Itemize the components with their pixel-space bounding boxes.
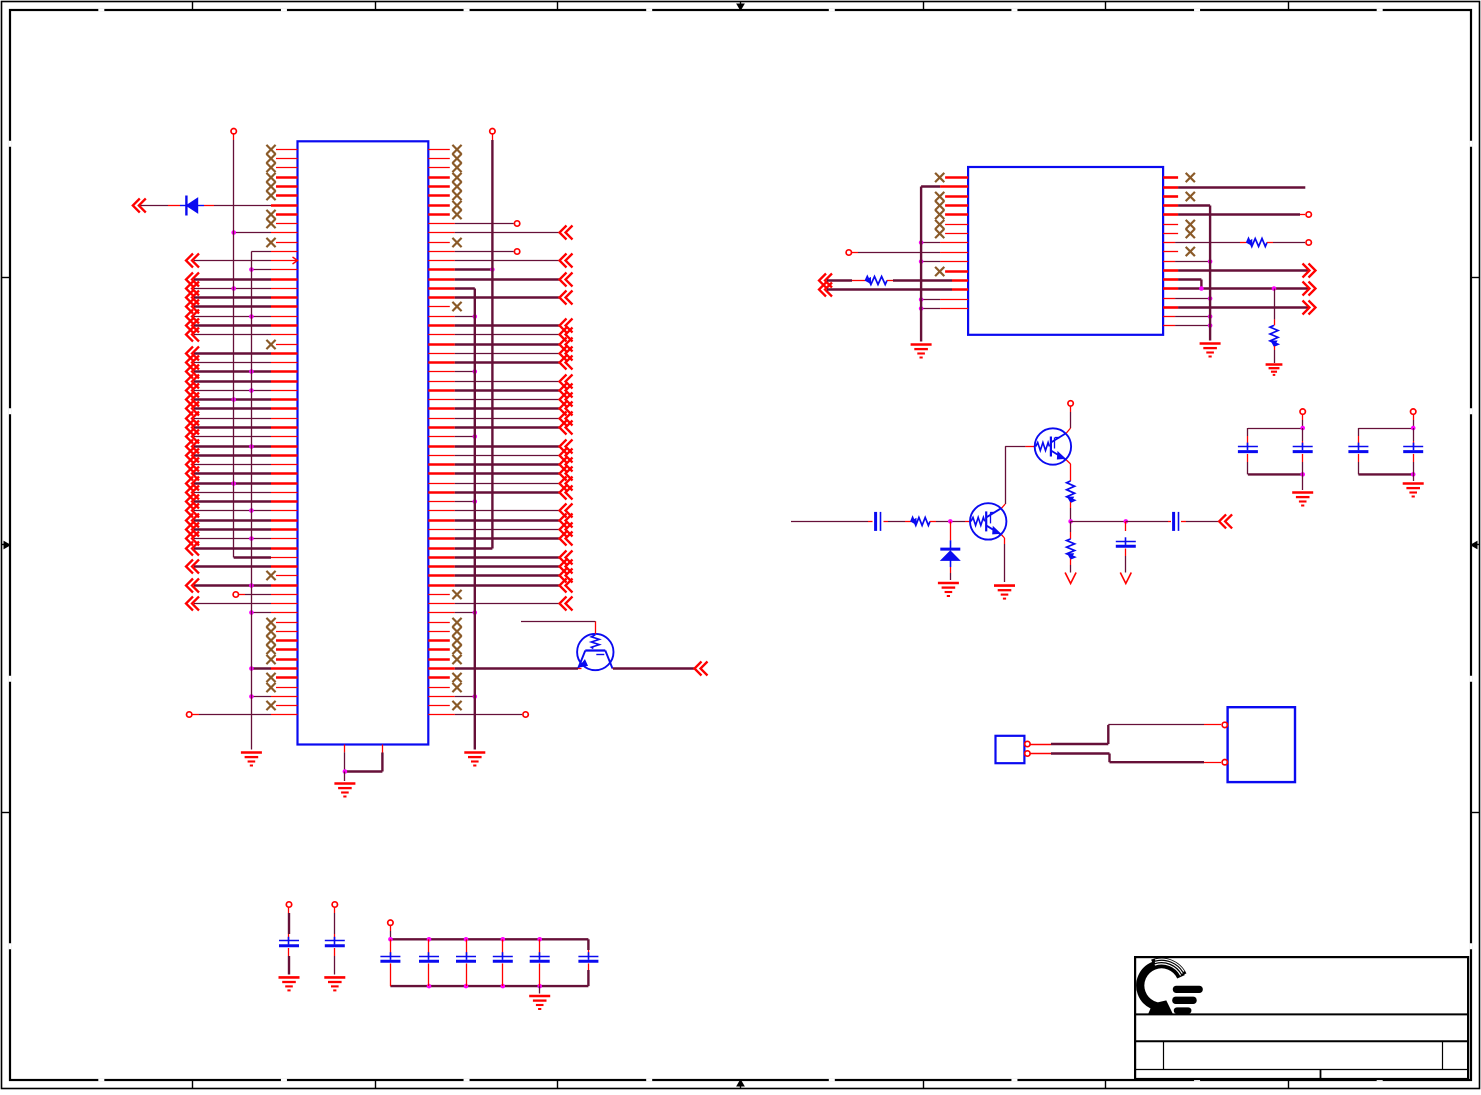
no-connect X left pin 3 <box>266 163 297 172</box>
wire right pin 36 <box>428 467 572 481</box>
no-connect X left pin 4 <box>266 173 297 182</box>
U1 ground pins <box>343 745 383 782</box>
wire left pin 48 <box>186 579 298 593</box>
wire right pin 12 <box>428 249 520 254</box>
wire right pin 23 <box>428 347 572 361</box>
no-connect X right pin 56 <box>428 655 461 664</box>
wire right pin 25 <box>428 369 477 374</box>
wire U2 right jog <box>1163 280 1201 289</box>
no-connect X left pin 9 <box>266 219 297 228</box>
no-connect X U2 left pin 4 <box>935 201 968 210</box>
no-connect X right pin 55 <box>428 645 461 654</box>
ground under bus C <box>1200 344 1221 357</box>
wire Q3 base <box>521 621 596 634</box>
wire left pin 51 <box>249 610 297 615</box>
wire left pin 26 <box>186 375 298 389</box>
no-connect X U2 right pin <box>1163 229 1195 238</box>
wire left pin 28 <box>186 393 298 407</box>
no-connect X right pin 5 <box>428 182 461 191</box>
wire right pin 32 <box>428 434 477 439</box>
wire right pin 57 to Q3 <box>428 667 578 670</box>
wire right pin 20 <box>428 319 572 333</box>
wire right pin 21 <box>428 328 572 342</box>
wire U2 pin 2 to bus <box>921 185 968 188</box>
capacitor C bank 1 <box>380 939 400 986</box>
off-page wire U2 right <box>1163 264 1315 278</box>
no-connect X U2 right pin <box>1163 220 1195 229</box>
no-connect X U2 left pin 7 <box>935 229 968 238</box>
wire left pin 34 <box>186 449 298 463</box>
wire left pin 46 <box>186 560 298 574</box>
port to capacitor bank <box>388 920 393 939</box>
wire right pin 42 <box>428 523 572 537</box>
no-connect X right pin 54 <box>428 636 461 645</box>
no-connect X left pin 1 <box>266 145 297 154</box>
wire right pin 16 <box>428 287 475 290</box>
wire left pin 45 <box>234 557 298 559</box>
IC U2 <box>968 167 1163 335</box>
resistor R pulldown at U2 <box>1270 289 1278 364</box>
wire left pin 32 <box>186 430 298 444</box>
no-connect X left pin 55 <box>266 645 297 654</box>
wire left pin 40 <box>186 504 298 518</box>
ground under bus A <box>464 753 485 766</box>
no-connect X left pin 53 <box>266 627 297 636</box>
wire pair1 ground <box>1302 474 1304 490</box>
wire right pin 37 <box>428 477 572 491</box>
wire U2 left pin 10 to bus <box>919 259 968 264</box>
resistor R and off-page wire to U2 pin 12 <box>819 274 968 288</box>
no-connect X left pin 5 <box>266 182 297 191</box>
wire right pin 26 <box>428 375 572 389</box>
capacitor C bank 6 <box>578 939 598 986</box>
wire right pin 22 <box>428 338 572 352</box>
wire left pin 60 <box>249 694 297 699</box>
wire right pin 45 <box>428 551 572 565</box>
wire left pin 42 <box>186 523 298 537</box>
wire right pin 19 <box>428 314 477 319</box>
wire left pin 20 <box>186 319 298 333</box>
capacitor bank top bus <box>388 937 588 942</box>
no-connect X left pin 47 <box>266 571 297 580</box>
capacitor C shunt <box>1116 521 1136 572</box>
wire Q1 emitter to ground <box>1002 535 1005 582</box>
wire right pin 15 <box>428 273 572 287</box>
wire right pin 27 <box>428 384 572 398</box>
wire left pin 21 <box>186 328 298 342</box>
wire left pin 29 <box>186 402 298 416</box>
no-connect X U2 left pin 1 <box>935 173 968 182</box>
node VDD vertical net V1 <box>231 129 236 558</box>
no-connect X right pin 52 <box>428 618 461 627</box>
resistor R to port at U2 right <box>1163 239 1311 247</box>
no-connect X right pin 2 <box>428 154 461 163</box>
wire Q1 collector <box>1002 446 1035 508</box>
wire U2 left pin 14 to bus <box>919 297 968 302</box>
wire right pin 14 <box>428 267 494 272</box>
wire left pin 38 <box>186 486 298 500</box>
wire right pin 29 <box>428 402 572 416</box>
no-connect port right of U1 bottom <box>428 712 528 717</box>
wire U2 left pin 15 to bus <box>919 306 968 311</box>
wire left pin 18 <box>186 300 298 314</box>
wire right pin 48 <box>428 579 572 593</box>
node bus B <box>490 129 495 549</box>
wire right pin 35 <box>428 458 572 472</box>
wire resistor to Q1 base <box>930 519 970 524</box>
connector J2 <box>1228 707 1295 782</box>
capacitor C output series <box>1174 512 1179 531</box>
ground under D2 <box>938 583 959 596</box>
wire J1 pin2 to J2 <box>1025 751 1228 765</box>
wire U2 right pin to bus C <box>1163 323 1212 328</box>
no-connect port wire to U1 left pin 49 <box>233 592 297 597</box>
power arrow VEE 1 <box>1065 573 1076 584</box>
wire U2 pin to bus C <box>1163 204 1210 207</box>
diode D2 <box>940 521 960 580</box>
no-connect X left pin 2 <box>266 154 297 163</box>
no-connect X right pin 18 <box>428 302 461 311</box>
wire right pin 60 <box>428 694 477 699</box>
wire right pin 17 <box>428 291 572 305</box>
decoupling capacitor pair 2 <box>1348 409 1423 477</box>
wire right pin 13 <box>428 254 572 268</box>
no-connect X U2 left pin 3 <box>935 192 968 201</box>
vertical net V2 with ground <box>251 252 253 750</box>
wire left pin 19 <box>186 310 298 324</box>
wire right pin 50 <box>428 597 572 611</box>
ground bulk cap 2 <box>324 977 345 990</box>
transistor Q3 <box>577 634 613 670</box>
title block <box>1135 957 1468 1079</box>
no-connect X right pin 59 <box>428 683 461 692</box>
wire left pin 12 <box>251 251 297 253</box>
wire Q2 collector to port <box>1066 401 1073 433</box>
wire right pin 44 <box>428 547 492 550</box>
off-page wire to U2 pin 13 <box>819 283 968 297</box>
wire left pin 50 <box>186 597 298 611</box>
vertical net bus A with ground <box>474 289 476 750</box>
wire left pin 35 <box>186 458 298 472</box>
no-connect X U2 left pin 6 <box>935 220 968 229</box>
no-connect X left pin 58 <box>266 673 297 682</box>
ground under resistor <box>1266 365 1283 375</box>
wire pair2 ground <box>1413 474 1415 481</box>
ground under U1 <box>334 784 355 797</box>
no-connect X U2 right pin <box>1163 247 1195 256</box>
resistor R series input <box>911 517 930 525</box>
capacitor C bulk 2 <box>325 902 345 975</box>
capacitor C bank 2 <box>419 939 439 986</box>
ground under V2 <box>241 753 262 766</box>
resistor R emitter <box>1067 481 1075 502</box>
wire U2 right pin to bus C <box>1163 314 1212 319</box>
no-connect X right pin 53 <box>428 627 461 636</box>
wire Q2 emitter <box>1066 460 1070 481</box>
no-connect X left pin 8 <box>266 210 297 219</box>
no-connect X left pin 59 <box>266 683 297 692</box>
wire right pin 47 <box>428 569 572 583</box>
wire left pin 36 <box>186 467 298 481</box>
wire analog input <box>791 521 873 523</box>
wire cap to resistor <box>884 521 912 523</box>
no-connect port to U2 pin 9 <box>846 250 968 255</box>
wire right pin 40 <box>428 504 572 518</box>
wire left pin 15 <box>186 273 298 287</box>
wire left pin 57 <box>249 666 297 671</box>
wire left pin 43 <box>186 532 298 546</box>
wire left pin 27 <box>186 384 298 398</box>
wire U2 right pin to bus C <box>1163 259 1212 264</box>
wire right pin 9 <box>428 221 520 226</box>
wire resistor to node <box>1068 502 1073 524</box>
diode D1 and wire to U1 pin <box>133 196 298 216</box>
wire right pin 28 <box>428 393 572 407</box>
wire U2 right pin to port <box>1163 212 1311 217</box>
wire right pin 10 <box>428 226 572 240</box>
capacitor C bulk 1 <box>279 902 299 975</box>
U2 left bus with ground <box>920 187 922 342</box>
U2 bus C with ground <box>1209 206 1211 341</box>
wire left pin 17 <box>186 291 298 305</box>
wire left pin 41 <box>186 514 298 528</box>
wire bank ground <box>539 986 541 993</box>
no-connect X left pin 56 <box>266 655 297 664</box>
no-connect X right pin 49 <box>428 590 461 599</box>
wire right pin 30 <box>428 412 572 426</box>
no-connect X right pin 61 <box>428 701 461 710</box>
wire right pin 51 <box>428 610 477 615</box>
no-connect X left pin 6 <box>266 191 297 200</box>
capacitor C bank 5 <box>530 939 550 986</box>
no-connect X U2 right pin <box>1163 192 1195 201</box>
no-connect X left pin 22 <box>266 340 297 349</box>
wire right pin 34 <box>428 449 572 463</box>
power arrow VEE 2 <box>1120 573 1131 584</box>
wire left pin 14 <box>249 267 297 272</box>
transistor Q2 <box>1035 428 1071 464</box>
resistor R bias lower <box>1067 521 1075 572</box>
wire left pin 10 <box>231 230 297 235</box>
ground capacitor bank <box>529 996 550 1009</box>
no-connect X left pin 11 <box>266 238 297 247</box>
wire left pin 16 <box>186 282 298 296</box>
no-connect X right pin 58 <box>428 673 461 682</box>
wire right pin 31 <box>428 421 572 435</box>
capacitor C series input <box>876 512 881 531</box>
capacitor bank bottom bus <box>390 984 588 989</box>
wire right pin 46 <box>428 560 572 574</box>
no-connect X right pin 1 <box>428 145 461 154</box>
wire left pin 31 <box>186 421 298 435</box>
wire right pin 33 <box>428 440 572 454</box>
wire left pin 13 <box>186 254 298 268</box>
no-connect X U2 left pin 5 <box>935 210 968 219</box>
no-connect X right pin 8 <box>428 210 461 219</box>
no-connect X right pin 7 <box>428 201 461 210</box>
wire U2 left pin 8 to bus <box>919 240 968 245</box>
no-connect X right pin 11 <box>428 238 461 247</box>
no-connect port left of U1 bottom <box>187 712 298 717</box>
logo <box>1140 959 1203 1014</box>
decoupling capacitor pair 1 <box>1238 409 1313 477</box>
wire U2 right pin 2 <box>1163 186 1305 189</box>
no-connect X right pin 6 <box>428 191 461 200</box>
wire J1 pin1 to J2 <box>1025 722 1228 747</box>
wire Q3 emitter left <box>578 668 581 670</box>
wire left pin 37 <box>186 477 298 491</box>
wire right pin 41 <box>428 514 572 528</box>
wire node to output <box>1071 519 1171 524</box>
wire right pin 39 <box>428 499 477 504</box>
wire right pin 38 <box>428 486 572 500</box>
off-page wire U2 right 3 <box>1163 301 1315 315</box>
wire left pin 23 <box>186 347 298 361</box>
wire output to off-page <box>1181 514 1232 528</box>
no-connect X left pin 54 <box>266 636 297 645</box>
off-page wire U2 right 2 <box>1163 282 1315 296</box>
no-connect X right pin 4 <box>428 173 461 182</box>
ground bulk cap 1 <box>279 977 300 990</box>
wire U2 right pin to bus C <box>1163 296 1212 301</box>
ground pair 2 <box>1403 484 1424 497</box>
no-connect X right pin 3 <box>428 163 461 172</box>
capacitor C bank 3 <box>456 939 476 986</box>
wire right pin 24 <box>428 356 572 370</box>
transistor Q1 <box>970 503 1006 539</box>
no-connect X U2 right pin <box>1163 173 1195 182</box>
wire right pin 43 <box>428 532 572 546</box>
no-connect X left pin 52 <box>266 618 297 627</box>
ground pair 1 <box>1292 493 1313 506</box>
wire left pin 39 <box>186 495 298 509</box>
wire left pin 24 <box>186 356 298 370</box>
IC U1 <box>298 141 429 744</box>
wire left pin 44 <box>186 542 298 556</box>
wire Q3 collector to off-page <box>613 662 708 676</box>
connector J1 <box>996 736 1025 763</box>
wire left pin 25 <box>186 365 298 379</box>
no-connect X left pin 61 <box>266 701 297 710</box>
wire left pin 30 <box>186 412 298 426</box>
ground under U2 left bus <box>911 345 932 358</box>
ground under Q1 <box>994 586 1015 599</box>
wire left pin 33 <box>186 440 298 454</box>
no-connect X U2 left pin 11 <box>935 267 968 276</box>
capacitor C bank 4 <box>493 939 513 986</box>
